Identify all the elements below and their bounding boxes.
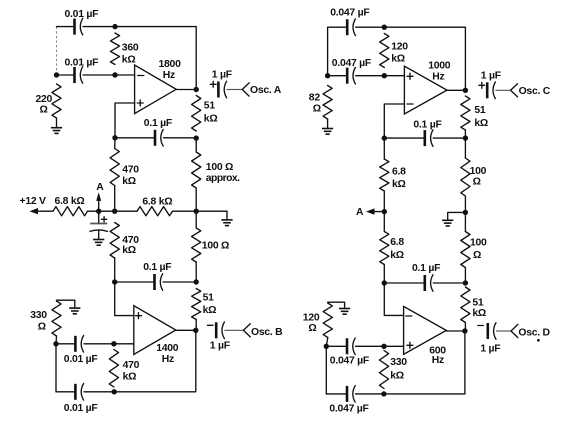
wire R11 top to ground xyxy=(57,300,75,308)
svg-text:Ω: Ω xyxy=(313,104,321,115)
junction top / 120k xyxy=(382,25,387,30)
resistor R8 470 kOhm (lower) xyxy=(110,223,119,259)
ground on rail xyxy=(221,219,232,221)
wire C11 to op-amp plus input xyxy=(356,75,405,77)
wire feedback row to C3 xyxy=(115,137,155,139)
svg-text:6.8 kΩ: 6.8 kΩ xyxy=(55,196,85,207)
svg-text:Osc. C: Osc. C xyxy=(519,86,551,97)
capacitor C3 0.1 uF xyxy=(154,130,157,146)
output cap minus polarity Osc B xyxy=(207,324,213,326)
wire plus input Osc D xyxy=(384,345,403,347)
capacitor C10 0.047 uF (top) xyxy=(346,19,349,35)
wire R9 top lead xyxy=(195,211,197,228)
U1 plus input label xyxy=(137,102,143,104)
wire R19 top lead xyxy=(464,212,466,231)
svg-text:kΩ: kΩ xyxy=(390,371,404,382)
wire C17 to Osc D connector xyxy=(496,330,511,332)
wire minus input Osc D xyxy=(384,283,403,315)
svg-text:0.01 µF: 0.01 µF xyxy=(65,58,99,69)
wire R17 top lead xyxy=(464,138,466,158)
svg-text:Hz: Hz xyxy=(432,355,444,366)
junction feedback node C right xyxy=(463,135,468,140)
svg-text:1 µF: 1 µF xyxy=(210,341,230,352)
svg-text:Osc. B: Osc. B xyxy=(251,327,283,338)
wire plus input to feedback node xyxy=(115,103,135,138)
svg-text:0.047 µF: 0.047 µF xyxy=(332,58,371,69)
wire plus row to C15 xyxy=(356,345,385,347)
ground right column xyxy=(442,219,453,221)
wire top to right column C xyxy=(356,27,466,90)
wire bottom row to output column D xyxy=(384,331,465,394)
svg-text:Ω: Ω xyxy=(38,322,46,333)
junction bottom row / 470k xyxy=(112,389,117,394)
svg-text:1400: 1400 xyxy=(156,343,179,354)
svg-text:kΩ: kΩ xyxy=(204,114,218,125)
junction 120k / input row xyxy=(382,73,387,78)
junction rail / 470k column xyxy=(112,209,117,214)
svg-text:A: A xyxy=(356,207,364,218)
U3 plus input label xyxy=(407,75,413,77)
wire U2 output xyxy=(176,329,196,331)
resistor R10 51 kOhm (Osc B) xyxy=(192,289,201,320)
wire node A to bypass cap xyxy=(98,211,100,223)
wire minus input to feedback node C xyxy=(384,104,404,138)
wire R9 bottom lead xyxy=(195,262,197,282)
wire 330 node down xyxy=(55,344,57,392)
svg-text:0.01 µF: 0.01 µF xyxy=(64,403,98,414)
wire R17 bottom lead xyxy=(464,196,466,212)
op-amp U4 Osc D xyxy=(404,306,447,354)
capacitor C2 0.01 uF (input) xyxy=(73,67,76,83)
wire R18 bottom lead xyxy=(383,265,385,284)
capacitor C6 0.1 uF (Osc B) xyxy=(153,274,156,290)
wire R11 bottom lead xyxy=(55,336,58,344)
node A arrow up xyxy=(98,199,100,211)
wire top feedback loop Osc A (faded vertical) xyxy=(56,27,58,73)
wire top to right column xyxy=(83,27,196,90)
svg-text:120: 120 xyxy=(391,42,408,53)
junction Osc B feedback left xyxy=(112,279,117,284)
junction right column ground xyxy=(463,210,468,215)
power +12 V arrow xyxy=(30,208,39,214)
wire R16 bottom lead xyxy=(383,191,385,212)
wire R20 bottom lead xyxy=(464,323,466,332)
ground below 220 ohm xyxy=(51,127,62,129)
wire 82 ohm to ground xyxy=(327,119,329,128)
svg-text:Osc. D: Osc. D xyxy=(518,327,550,338)
junction 120 ohm node xyxy=(324,344,329,349)
wire rail ground stem xyxy=(226,211,228,219)
svg-text:1800: 1800 xyxy=(159,59,182,70)
junction input row / 220 ohm xyxy=(54,72,59,77)
wire U4 output xyxy=(446,330,465,332)
resistor R12 470 kOhm (Osc B) xyxy=(109,350,118,388)
wire bypass cap to ground xyxy=(98,230,100,239)
svg-text:51: 51 xyxy=(203,293,215,304)
wire plus input Osc B xyxy=(115,282,134,316)
junction 360k / input row xyxy=(112,72,117,77)
capacitor C5 bypass (electrolytic) xyxy=(90,223,107,225)
svg-text:kΩ: kΩ xyxy=(122,245,136,256)
wire C3 to right column xyxy=(164,137,197,139)
junction rail / 100 ohm column xyxy=(194,209,199,214)
junction U4 output node xyxy=(462,328,467,333)
svg-text:A: A xyxy=(96,182,104,193)
output cap plus polarity Osc C xyxy=(479,84,485,86)
svg-text:kΩ: kΩ xyxy=(390,250,404,261)
capacitor C1 0.01 uF (top) xyxy=(73,19,76,35)
wire lower cap row left D xyxy=(326,393,347,395)
svg-text:0.047 µF: 0.047 µF xyxy=(330,355,369,366)
wire R15 bottom lead xyxy=(464,130,466,138)
resistor R4 470 kOhm (upper) xyxy=(110,149,119,186)
wire top feedback loop Osc A xyxy=(57,26,75,28)
wire R21 top to ground xyxy=(328,302,345,308)
wire U3 output xyxy=(447,89,465,91)
U1 minus input label xyxy=(138,75,144,77)
resistor R15 51 kOhm (Osc C) xyxy=(461,96,470,130)
svg-text:470: 470 xyxy=(123,360,140,371)
svg-text:kΩ: kΩ xyxy=(123,372,137,383)
stray print dot xyxy=(537,339,540,342)
svg-text:1 µF: 1 µF xyxy=(212,70,232,81)
svg-text:Ω: Ω xyxy=(473,250,481,261)
junction feedback node right xyxy=(194,135,199,140)
junction input row / 82 ohm xyxy=(325,73,330,78)
svg-text:kΩ: kΩ xyxy=(392,179,406,190)
junction 330 ohm node xyxy=(53,341,58,346)
node A junction xyxy=(96,209,101,214)
wire C6 to right column xyxy=(163,281,196,283)
U2 plus input label xyxy=(136,315,142,317)
svg-text:0.1 µF: 0.1 µF xyxy=(143,262,171,273)
capacitor C14 0.1 uF (Osc D) xyxy=(423,275,426,291)
svg-text:0.1 µF: 0.1 µF xyxy=(144,118,172,129)
capacitor C7 0.01 uF (Osc B in) xyxy=(74,336,77,352)
wire minus row to C7 xyxy=(84,343,114,345)
connector bracket Osc B xyxy=(243,324,250,337)
svg-text:6.8 kΩ: 6.8 kΩ xyxy=(142,197,172,208)
junction bottom row / 330k xyxy=(381,391,386,396)
wire C12 to right column xyxy=(433,137,465,139)
connector bracket Osc D xyxy=(511,324,518,337)
svg-text:Hz: Hz xyxy=(163,70,175,81)
wire C9 to Osc B connector xyxy=(224,329,243,331)
junction Osc B feedback right xyxy=(194,279,199,284)
wire R5 top lead xyxy=(195,138,197,152)
capacitor C12 0.1 uF (Osc C) xyxy=(423,130,426,146)
ground above Osc D input xyxy=(339,308,350,310)
wire R21 bottom lead xyxy=(326,338,328,347)
capacitor C16 0.047 uF (bottom) xyxy=(346,386,349,402)
resistor R17 100 Ohm (Osc C) xyxy=(461,158,470,196)
resistor R21 120 Ohm xyxy=(323,303,332,338)
svg-text:+12 V: +12 V xyxy=(20,196,47,207)
wire bottom row to output column xyxy=(114,330,196,392)
junction U2 output node xyxy=(193,328,198,333)
U3 minus input label xyxy=(407,103,413,105)
capacitor C15 0.047 uF (Osc D in) xyxy=(346,338,349,354)
resistor R7 6.8 kOhm (right) xyxy=(137,207,173,216)
svg-text:1 µF: 1 µF xyxy=(481,71,501,82)
svg-text:0.1 µF: 0.1 µF xyxy=(413,120,441,131)
svg-text:1 µF: 1 µF xyxy=(480,343,500,354)
svg-text:Hz: Hz xyxy=(432,72,444,83)
node A junction right xyxy=(382,209,387,214)
svg-text:470: 470 xyxy=(122,165,139,176)
svg-text:0.01 µF: 0.01 µF xyxy=(64,354,98,365)
wire to ground right xyxy=(448,212,466,220)
capacitor C8 0.01 uF (bottom) xyxy=(74,384,77,400)
wire minus input Osc B xyxy=(114,343,134,345)
wire R5 bottom lead xyxy=(195,188,197,211)
svg-text:6.8: 6.8 xyxy=(390,237,404,248)
wire C7 to 330 ohm node xyxy=(56,343,75,345)
wire C15 to 120 ohm node xyxy=(326,345,347,347)
wire 220 ohm to ground xyxy=(56,118,58,127)
svg-text:0.1 µF: 0.1 µF xyxy=(412,263,440,274)
resistor R16 6.8 kOhm (Osc C) xyxy=(380,159,389,191)
svg-text:Ω: Ω xyxy=(473,177,481,188)
junction top / 360k xyxy=(112,24,117,29)
wire R4 top lead xyxy=(114,138,116,149)
svg-text:360: 360 xyxy=(122,43,139,54)
wire R7 to rail ground xyxy=(173,210,228,212)
output cap plus polarity xyxy=(210,83,216,85)
svg-text:330: 330 xyxy=(390,357,407,368)
svg-text:Osc. A: Osc. A xyxy=(250,85,282,96)
resistor R9 100 Ohm (lower) xyxy=(192,228,201,262)
op-amp U3 Osc C xyxy=(404,66,447,114)
wire C14 to right column xyxy=(433,282,465,284)
op-amp U1 Osc A xyxy=(135,65,177,114)
resistor R1 360 kOhm xyxy=(110,33,119,65)
resistor R13 120 kOhm xyxy=(380,34,389,68)
svg-text:82: 82 xyxy=(309,93,321,104)
svg-text:120: 120 xyxy=(303,313,320,324)
capacitor C17 1 uF (output Osc D) xyxy=(486,323,489,339)
connector bracket Osc A xyxy=(242,83,249,96)
svg-text:Ω: Ω xyxy=(40,105,48,116)
svg-text:51: 51 xyxy=(204,101,216,112)
svg-text:kΩ: kΩ xyxy=(203,305,217,316)
svg-text:Hz: Hz xyxy=(162,354,174,365)
ground below 82 ohm xyxy=(322,128,333,130)
wire R10 bottom lead xyxy=(195,320,197,331)
svg-text:100: 100 xyxy=(470,166,487,177)
wire Osc D feedback row xyxy=(384,282,425,284)
wire C13 to Osc C connector xyxy=(495,89,510,91)
wire C4 to Osc A connector xyxy=(227,89,243,91)
wire plus input row Osc C xyxy=(328,75,348,77)
svg-text:kΩ: kΩ xyxy=(472,308,486,319)
capacitor C4 1 uF (output Osc A) xyxy=(217,82,220,98)
svg-text:kΩ: kΩ xyxy=(122,55,136,66)
wire feedback row C xyxy=(384,137,425,139)
junction U3 output node xyxy=(463,88,468,93)
svg-text:1000: 1000 xyxy=(428,60,451,71)
resistor R20 51 kOhm (Osc D) xyxy=(461,287,470,323)
resistor R5 100 Ohm approx xyxy=(192,152,201,188)
connector bracket Osc C xyxy=(511,84,518,97)
svg-text:330: 330 xyxy=(30,310,47,321)
svg-text:0.047 µF: 0.047 µF xyxy=(329,403,368,414)
ground below bypass cap xyxy=(93,239,104,241)
wire Osc B feedback row xyxy=(115,281,155,283)
capacitor C9 1 uF (output Osc B) xyxy=(215,322,218,338)
svg-text:kΩ: kΩ xyxy=(122,176,136,187)
wire inverting input row Osc A xyxy=(57,74,75,76)
U4 minus input label xyxy=(406,315,412,317)
svg-text:Ω: Ω xyxy=(308,323,316,334)
node A arrow left xyxy=(375,211,385,213)
svg-text:6.8: 6.8 xyxy=(392,167,406,178)
junction Osc D feedback left xyxy=(382,280,387,285)
svg-text:100: 100 xyxy=(470,238,487,249)
resistor R3 51 kOhm xyxy=(192,96,201,132)
svg-text:0.01 µF: 0.01 µF xyxy=(65,9,99,20)
junction feedback node C left xyxy=(382,135,387,140)
svg-text:approx.: approx. xyxy=(206,173,240,184)
resistor R2 220 Ohm xyxy=(52,84,61,118)
wire R4 bottom lead xyxy=(114,186,116,212)
op-amp U2 Osc B xyxy=(134,306,176,355)
wire U1 output xyxy=(176,89,196,91)
resistor R18 6.8 kOhm (Osc D) xyxy=(380,232,389,265)
junction Osc D feedback right xyxy=(463,280,468,285)
svg-text:220: 220 xyxy=(36,94,53,105)
ground above Osc B input xyxy=(69,307,80,309)
resistor R19 100 Ohm (Osc D) xyxy=(461,232,470,268)
capacitor C13 1 uF (output Osc C) xyxy=(486,82,489,98)
wire R19 bottom lead xyxy=(464,268,466,284)
svg-text:kΩ: kΩ xyxy=(474,118,488,129)
resistor R14 82 Ohm xyxy=(323,86,332,120)
wire R8 bottom lead xyxy=(114,258,116,282)
resistor R22 330 kOhm xyxy=(379,351,388,389)
svg-text:100 Ω: 100 Ω xyxy=(206,162,233,173)
wire C8 to bottom junction xyxy=(84,391,114,393)
output cap minus polarity Osc D xyxy=(478,325,484,327)
U4 plus input label xyxy=(407,344,413,346)
wire R6 to node A xyxy=(88,210,138,212)
resistor R6 6.8 kOhm (left) xyxy=(53,207,88,216)
wire lower cap row left xyxy=(56,391,75,393)
wire top feedback loop Osc C xyxy=(328,27,348,75)
wire R16 top lead xyxy=(383,138,385,159)
junction plus input / 330k xyxy=(381,344,386,349)
wire C16 to bottom junction D xyxy=(356,393,384,395)
svg-text:kΩ: kΩ xyxy=(391,54,405,65)
resistor R11 330 Ohm xyxy=(52,301,61,336)
wire 120 node down xyxy=(325,346,327,394)
wire +12V to R6 xyxy=(38,210,53,212)
svg-text:0.047 µF: 0.047 µF xyxy=(330,8,369,19)
svg-text:51: 51 xyxy=(474,105,486,116)
junction U1 output node xyxy=(194,87,199,92)
svg-text:100 Ω: 100 Ω xyxy=(202,241,229,252)
junction minus input / 470k xyxy=(111,341,116,346)
wire R18 top lead xyxy=(383,212,385,232)
capacitor C11 0.047 uF (input) xyxy=(346,68,349,84)
junction feedback node left xyxy=(112,135,117,140)
bypass cap plus polarity xyxy=(102,218,107,220)
wire C2 to op-amp minus input xyxy=(83,74,135,76)
